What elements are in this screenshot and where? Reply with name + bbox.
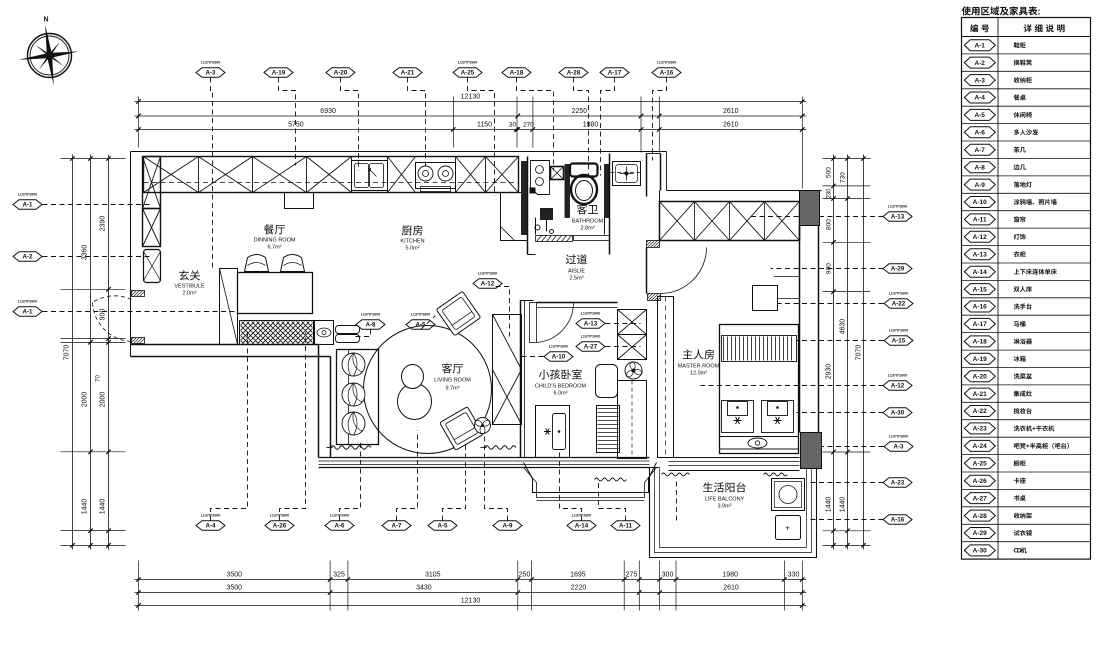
svg-text:A-6: A-6 (335, 523, 346, 530)
feature wall A-10 (493, 315, 522, 425)
curtain bay window (595, 478, 627, 481)
svg-text:+: + (785, 524, 790, 533)
svg-text:L1370*2600: L1370*2600 (361, 313, 381, 317)
leader line A-18 top (517, 78, 554, 171)
svg-text:L1370*2600: L1370*2600 (411, 313, 431, 317)
svg-text:A-22: A-22 (892, 301, 906, 308)
svg-text:KITCHEN: KITCHEN (400, 239, 424, 245)
svg-text:1440: 1440 (82, 499, 89, 515)
child bay window (524, 463, 657, 501)
dining table A-4 (238, 273, 313, 314)
svg-text:2250: 2250 (572, 108, 588, 115)
label master room (683, 349, 693, 359)
callout A-19 top (264, 68, 293, 78)
svg-text:N: N (43, 17, 48, 24)
leader line A-30r (797, 412, 884, 414)
curtain balcony left (662, 473, 690, 476)
svg-text:A-25: A-25 (461, 70, 475, 77)
label aisle (566, 254, 576, 264)
svg-text:A-29: A-29 (973, 530, 987, 537)
bottom dimension chains (135, 561, 807, 611)
svg-text:3500: 3500 (227, 585, 243, 592)
svg-text::: : (1038, 7, 1041, 18)
svg-text:L1370*2600: L1370*2600 (18, 300, 38, 304)
label bathroom (577, 204, 587, 214)
svg-text:L1370*2600: L1370*2600 (889, 329, 909, 333)
svg-text:5750: 5750 (288, 122, 304, 129)
leader line A-16r (807, 519, 884, 521)
svg-text:A-23: A-23 (891, 480, 905, 487)
leader line A-7 bottom (397, 431, 418, 521)
callout A-2 left 1 (13, 252, 42, 262)
svg-text:A-27: A-27 (584, 344, 598, 351)
svg-text:A-2: A-2 (23, 254, 34, 261)
fridge A-19 (285, 193, 314, 209)
leader A-10 internal (522, 356, 544, 358)
svg-text:300: 300 (662, 572, 674, 579)
svg-text:DINNING ROOM: DINNING ROOM (254, 238, 296, 244)
booth side table (315, 321, 334, 345)
kitchen counter return (501, 193, 528, 241)
svg-text:1150: 1150 (477, 122, 492, 129)
child bed A-14 (536, 406, 570, 458)
dining chair 2 (281, 255, 305, 272)
svg-text:2000: 2000 (82, 392, 89, 408)
svg-text:A-26: A-26 (973, 478, 987, 485)
svg-text:L1370*2600: L1370*2600 (581, 312, 601, 316)
svg-text:2610: 2610 (723, 585, 739, 592)
svg-text:A-3: A-3 (974, 77, 985, 84)
svg-text:7070: 7070 (64, 345, 71, 361)
callout A-6 bottom (325, 514, 354, 531)
svg-text:A-12: A-12 (481, 281, 495, 288)
leader line A-19 top (279, 78, 296, 166)
svg-text:A-26: A-26 (273, 523, 287, 530)
svg-text:6930: 6930 (320, 108, 336, 115)
svg-text:730: 730 (840, 172, 847, 183)
svg-text:A-24: A-24 (973, 443, 987, 450)
svg-text:2.8m²: 2.8m² (580, 226, 594, 232)
callout A-17 top (600, 68, 629, 78)
master left partition (658, 297, 674, 458)
svg-text:AISLIE: AISLIE (568, 269, 585, 275)
svg-text:A-6: A-6 (974, 130, 985, 137)
leader line A-6 bottom (340, 441, 361, 521)
svg-text:A-20: A-20 (973, 373, 987, 380)
svg-text:6.7m²: 6.7m² (267, 245, 281, 251)
svg-text:A-14: A-14 (973, 269, 987, 276)
svg-text:A-8: A-8 (366, 322, 377, 329)
svg-text:A-16: A-16 (660, 70, 674, 77)
top dimension chains (135, 94, 807, 189)
svg-text:1440: 1440 (840, 497, 847, 513)
svg-text:A-13: A-13 (891, 214, 905, 221)
child bedroom door (530, 303, 574, 343)
svg-text:2930: 2930 (826, 364, 833, 380)
bathroom vanity and shower A-18 (531, 161, 564, 234)
svg-text:900: 900 (100, 309, 107, 321)
dressing table A-22 (753, 286, 778, 311)
leader line A-28 top (574, 78, 589, 176)
leader line A-20 top (341, 78, 359, 171)
svg-text:A-18: A-18 (973, 339, 987, 346)
washer dryer A-23 (772, 479, 805, 540)
svg-text:A-19: A-19 (973, 356, 987, 363)
svg-text:A-21: A-21 (401, 70, 415, 77)
leader line A-4 bottom (211, 331, 248, 521)
svg-text:A-10: A-10 (973, 199, 987, 206)
svg-text:L1370*2600: L1370*2600 (657, 61, 677, 65)
leader A-5 internal (421, 316, 436, 330)
svg-text:A-9: A-9 (503, 523, 514, 530)
svg-text:12130: 12130 (461, 94, 481, 101)
svg-text:4630: 4630 (840, 319, 847, 335)
floor lamp A-9 (474, 418, 491, 435)
callout A-1 left 2 (13, 300, 42, 317)
callout A-11 bottom (611, 521, 640, 531)
leader line A-2 left (43, 256, 151, 258)
callout A-13 right (883, 205, 912, 222)
callout A-21 top (393, 68, 422, 78)
callout A-28 top (559, 68, 588, 78)
concrete column bottom right (801, 433, 822, 469)
curtain living right (485, 446, 517, 450)
svg-text:A-11: A-11 (973, 217, 987, 224)
svg-text:A-9: A-9 (974, 182, 985, 189)
child desk (596, 365, 618, 398)
booth seat A-26 (240, 321, 314, 345)
svg-text:800: 800 (826, 219, 833, 230)
svg-text:A-28: A-28 (973, 513, 987, 520)
left dimension chains (61, 155, 126, 550)
svg-text:A-12: A-12 (891, 383, 905, 390)
callout A-4 bottom (196, 514, 225, 531)
kitchen dining top cabinets (144, 157, 519, 193)
exterior wall outline (131, 152, 822, 357)
svg-text:A-1: A-1 (974, 42, 985, 49)
child bedroom walls (521, 301, 618, 458)
svg-text:12.0m²: 12.0m² (690, 371, 707, 377)
callout A-14 bottom (567, 514, 596, 531)
svg-text:A-27: A-27 (973, 495, 987, 502)
leader line A-14 bottom (560, 451, 582, 521)
concrete column top right (800, 191, 820, 226)
svg-text:5.0m²: 5.0m² (405, 246, 419, 252)
svg-text:A-17: A-17 (973, 321, 987, 328)
svg-text:A-3: A-3 (206, 70, 217, 77)
leader line A-23r (807, 482, 884, 484)
svg-text:L1370*2600: L1370*2600 (581, 335, 601, 339)
svg-text:1980: 1980 (722, 572, 738, 579)
entry door (93, 291, 145, 344)
svg-text:6.0m²: 6.0m² (553, 391, 567, 397)
leader line A-16 top (653, 78, 667, 161)
callout A-7 bottom (382, 521, 411, 531)
balcony railing (650, 468, 817, 558)
svg-text:A-13: A-13 (584, 321, 598, 328)
callout A-5 bottom (428, 521, 457, 531)
callout A-13 internal (576, 312, 605, 329)
legend table (962, 6, 1091, 559)
callout A-29 right (883, 264, 912, 274)
svg-text:A-13: A-13 (973, 252, 987, 259)
master south window (669, 458, 800, 471)
svg-text:230: 230 (827, 188, 833, 199)
child drawers (597, 406, 620, 453)
svg-text:L1370*2600: L1370*2600 (18, 193, 38, 197)
leader line A-22r (778, 303, 884, 305)
master wardrobe band A-13 (660, 191, 800, 241)
callout A-25 top (453, 61, 482, 78)
leader line A-21 top (408, 78, 426, 171)
svg-text:1440: 1440 (826, 497, 833, 513)
leader line A-29r (771, 268, 884, 270)
callout A-12 right (883, 374, 912, 391)
leader line A-3 top (211, 78, 213, 271)
callout A-16 top (652, 61, 681, 78)
svg-text:L1370*2600: L1370*2600 (478, 272, 498, 276)
svg-text:L1370*2600: L1370*2600 (888, 205, 908, 209)
callout A-22 right (884, 292, 913, 309)
svg-text:L1370*2600: L1370*2600 (889, 292, 909, 296)
child wardrobe A-13 (618, 310, 647, 459)
svg-text:A-1: A-1 (23, 309, 34, 316)
leader line A-11 bottom (599, 483, 626, 521)
label child bedroom (539, 369, 549, 379)
dining chair 1 (245, 255, 269, 272)
callout A-20 top (326, 68, 355, 78)
svg-text:3360: 3360 (82, 245, 89, 261)
svg-text:2.0m²: 2.0m² (182, 291, 196, 297)
callout A-16 right (883, 515, 912, 525)
svg-text:A-30: A-30 (973, 548, 987, 555)
callout A-3 top (196, 61, 225, 78)
label dining room (264, 224, 274, 234)
leader line A-25 top (468, 78, 495, 196)
svg-text:A-28: A-28 (567, 70, 581, 77)
label kitchen (402, 226, 412, 236)
svg-text:2000: 2000 (100, 392, 107, 408)
svg-text:A-22: A-22 (973, 408, 987, 415)
svg-text:A-20: A-20 (334, 70, 348, 77)
leader line A-1 left lower (43, 311, 241, 313)
tea table A-7 (398, 365, 432, 420)
label vestibule (179, 270, 189, 280)
svg-text:12130: 12130 (461, 598, 481, 605)
hall washbasin A-16 (611, 162, 643, 186)
left wall shoe cabinets A-1 (143, 157, 161, 283)
svg-text:A-19: A-19 (272, 70, 286, 77)
living room south window wall (319, 458, 650, 468)
master bed A-15 (720, 325, 799, 454)
callout A-26 bottom (265, 514, 294, 531)
callout A-1 left 0 (13, 193, 42, 210)
callout A-12 internal (473, 272, 502, 289)
bathroom walls (522, 154, 610, 255)
callout A-30 right (883, 408, 912, 418)
svg-text:BATHROOM: BATHROOM (572, 219, 604, 225)
svg-text:275: 275 (626, 572, 638, 579)
leader line A-3r (801, 446, 884, 448)
svg-text:LIVING ROOM: LIVING ROOM (434, 378, 471, 384)
svg-text:9.7m²: 9.7m² (445, 386, 459, 392)
storage cabinet A-3 (220, 269, 238, 345)
callout A-5 internal (406, 313, 435, 330)
label living room (442, 363, 452, 373)
callout A-15 right (884, 329, 913, 346)
svg-text:1980: 1980 (583, 122, 599, 129)
living room round rug (364, 326, 492, 454)
leader line A-12r (701, 385, 884, 387)
svg-text:3500: 3500 (227, 572, 243, 579)
svg-text:A-17: A-17 (608, 70, 622, 77)
svg-text:A-23: A-23 (973, 426, 987, 433)
svg-text:A-30: A-30 (891, 410, 905, 417)
svg-text:A-25: A-25 (973, 461, 987, 468)
svg-text:L1370*2600: L1370*2600 (201, 61, 221, 65)
toilet A-17 (570, 164, 598, 205)
leader line A-13r (751, 216, 884, 218)
svg-text:VESTIBULE: VESTIBULE (174, 284, 205, 290)
svg-text:A-15: A-15 (973, 286, 987, 293)
svg-text:3430: 3430 (416, 585, 432, 592)
svg-text:L1370*2600: L1370*2600 (888, 374, 908, 378)
svg-text:7070: 7070 (856, 345, 863, 361)
callout A-8 internal (356, 313, 385, 330)
svg-text:A-8: A-8 (974, 164, 985, 171)
svg-text:30: 30 (509, 122, 517, 129)
callout A-9 bottom (493, 521, 522, 531)
curtain living left (331, 446, 372, 450)
compass north arrow (19, 17, 78, 86)
svg-text:A-10: A-10 (552, 354, 566, 361)
leader line A-11 balcony branch (676, 479, 678, 521)
leader A-12 internal (496, 287, 510, 337)
svg-text:1440: 1440 (100, 499, 107, 515)
sofa A-6 (337, 350, 379, 445)
leader line A-17 top (601, 78, 615, 176)
svg-text:500: 500 (826, 167, 833, 178)
svg-text:L1370*2600: L1370*2600 (458, 61, 478, 65)
master room door and wall (647, 154, 707, 301)
svg-text:3105: 3105 (425, 572, 441, 579)
callout A-3 right (884, 435, 913, 452)
svg-text:L1370*2600: L1370*2600 (889, 435, 909, 439)
svg-text:A-1: A-1 (23, 202, 34, 209)
svg-text:270: 270 (523, 122, 534, 129)
svg-text:A-21: A-21 (973, 391, 987, 398)
master east wall (800, 226, 819, 433)
leader line A-26 bottom (280, 333, 306, 521)
kitchen sink A-20 (352, 161, 388, 191)
kitchen stove A-21 (416, 163, 456, 192)
right dimension chains (823, 155, 871, 550)
svg-text:A-5: A-5 (438, 523, 449, 530)
svg-text:A-7: A-7 (974, 147, 985, 154)
svg-text:325: 325 (333, 572, 345, 579)
svg-text:A-18: A-18 (510, 70, 524, 77)
svg-text:A-7: A-7 (392, 523, 403, 530)
leader A-13 internal (606, 323, 641, 325)
leader line A-9 bottom (485, 435, 508, 521)
svg-text:A-4: A-4 (206, 523, 217, 530)
svg-text:CHILD'S BEDROOM: CHILD'S BEDROOM (535, 384, 587, 390)
svg-text:3.9m²: 3.9m² (717, 504, 731, 510)
svg-text:A-15: A-15 (892, 338, 906, 345)
leader line A-15r (797, 340, 884, 342)
leader A-27 internal (606, 346, 641, 348)
svg-text:A-12: A-12 (973, 234, 987, 241)
leader line A-5 bottom (443, 441, 466, 521)
svg-text:2610: 2610 (723, 108, 739, 115)
svg-text:330: 330 (788, 572, 800, 579)
svg-text:L1370*2600: L1370*2600 (549, 345, 569, 349)
svg-text:2220: 2220 (571, 585, 587, 592)
callout A-18 top (502, 68, 531, 78)
svg-text:250: 250 (519, 572, 531, 579)
svg-text:A-4: A-4 (974, 95, 985, 102)
svg-text:A-14: A-14 (575, 523, 589, 530)
callout A-10 internal (544, 345, 573, 362)
leader line A-1 left top (43, 204, 151, 206)
svg-text:70: 70 (96, 375, 102, 382)
lounge chair lower A-5 (440, 407, 484, 451)
callout A-27 internal (576, 335, 605, 352)
svg-text:A-3: A-3 (894, 444, 905, 451)
svg-text:A-5: A-5 (974, 112, 985, 119)
callout A-23 right (883, 478, 912, 488)
svg-text:A-16: A-16 (891, 517, 905, 524)
svg-text:A-11: A-11 (619, 523, 633, 530)
leader A-8 internal (353, 330, 371, 337)
svg-text:A-2: A-2 (974, 60, 985, 67)
label balcony (703, 482, 713, 492)
curtain balcony right (764, 473, 788, 476)
svg-text:A-29: A-29 (891, 266, 905, 273)
svg-text:2.5m²: 2.5m² (569, 276, 583, 282)
svg-text:LIFE BALCONY: LIFE BALCONY (705, 497, 745, 503)
lounge chair upper A-5 (436, 291, 481, 336)
svg-text:A-16: A-16 (973, 304, 987, 311)
wall dining-living corner (131, 345, 331, 458)
svg-text:2390: 2390 (100, 216, 107, 232)
svg-text:1695: 1695 (570, 572, 586, 579)
side table A-8 (336, 326, 360, 343)
svg-text:2610: 2610 (723, 122, 739, 129)
svg-text:MASTER ROOM: MASTER ROOM (678, 364, 720, 370)
